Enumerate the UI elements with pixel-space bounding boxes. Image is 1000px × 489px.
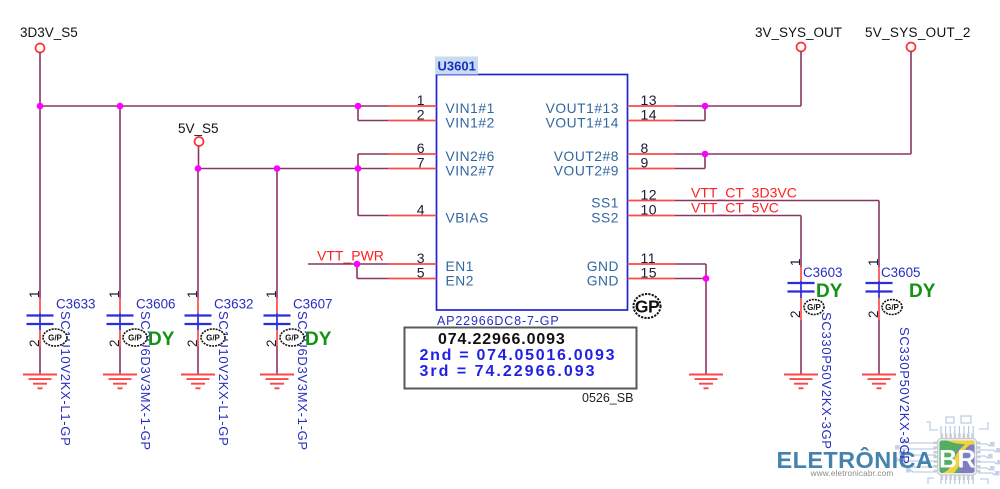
svg-text:0526_SB: 0526_SB	[582, 391, 633, 405]
wire bus 3D3V_S5 horizontal	[39, 105, 388, 107]
wire to pin2	[357, 106, 359, 121]
svg-text:SS1: SS1	[591, 196, 619, 211]
svg-text:12: 12	[641, 187, 658, 203]
wire 3D3V_S5 down	[39, 52, 41, 106]
svg-text:15: 15	[641, 265, 658, 281]
svg-text:VTT_CT_5VC: VTT_CT_5VC	[691, 200, 779, 216]
svg-text:7: 7	[417, 155, 425, 171]
op-amp U3601 body (load switch IC)	[437, 75, 628, 311]
junction VTT_PWR branch	[354, 261, 361, 268]
GP stamp logo at U3601	[634, 294, 661, 318]
junction C3607 tap	[274, 165, 281, 172]
svg-text:2: 2	[417, 107, 425, 123]
svg-text:GP: GP	[635, 297, 660, 317]
wire bus 5V_S5 horizontal	[198, 168, 388, 170]
wire VOUT1 to 3V_SYS_OUT	[675, 105, 801, 107]
svg-text:9: 9	[641, 155, 649, 171]
svg-text:C3607: C3607	[293, 297, 332, 312]
svg-text:SS2: SS2	[591, 211, 619, 226]
svg-text:G/P: G/P	[285, 333, 299, 342]
svg-text:2: 2	[866, 310, 881, 318]
junction 5V_S5/C3632	[195, 165, 202, 172]
svg-text:3V_SYS_OUT: 3V_SYS_OUT	[755, 25, 842, 40]
wire C3632 feed	[197, 169, 199, 298]
svg-text:EN2: EN2	[446, 274, 475, 289]
wire C3607 feed	[276, 169, 278, 299]
capacitor C3632	[185, 290, 254, 446]
svg-text:2: 2	[107, 339, 122, 347]
svg-text:VOUT2#9: VOUT2#9	[554, 164, 619, 179]
wire pin5 row	[357, 278, 388, 280]
svg-text:1: 1	[788, 258, 803, 266]
wire pin11 row	[675, 263, 706, 265]
svg-text:U3601: U3601	[438, 59, 476, 74]
svg-text:DY: DY	[148, 329, 175, 350]
svg-text:DY: DY	[909, 281, 936, 302]
ground under C3632	[181, 375, 215, 389]
wire to pin5	[356, 264, 358, 279]
svg-text:2nd = 074.05016.0093: 2nd = 074.05016.0093	[420, 347, 617, 364]
svg-text:GND: GND	[587, 259, 619, 274]
svg-text:EN1: EN1	[446, 259, 475, 274]
wire 5V_SYS_OUT_2 down	[910, 51, 912, 154]
wire to pin9	[704, 154, 706, 169]
svg-text:2: 2	[185, 339, 200, 347]
svg-text:VBIAS: VBIAS	[446, 211, 489, 226]
ground under C3633	[23, 375, 57, 389]
svg-text:2: 2	[264, 339, 279, 347]
svg-text:SC330P50V2KX-3GP: SC330P50V2KX-3GP	[819, 312, 834, 450]
svg-text:1: 1	[185, 290, 200, 298]
capacitor C3606	[107, 290, 176, 450]
svg-text:VOUT1#14: VOUT1#14	[546, 116, 619, 131]
wire pin14 row	[675, 120, 705, 122]
svg-text:G/P: G/P	[206, 333, 220, 342]
svg-text:G/P: G/P	[48, 333, 62, 342]
capacitor C3633	[27, 290, 96, 446]
pin 11 (GND)	[587, 250, 675, 274]
wire SS1 to C3605	[878, 201, 880, 268]
ground under U3601 GND pins	[689, 375, 723, 389]
pin 10 (SS2)	[591, 202, 675, 226]
svg-text:AP22966DC8-7-GP: AP22966DC8-7-GP	[437, 314, 560, 328]
svg-text:C3606: C3606	[136, 297, 175, 312]
wire VTT_PWR	[308, 263, 388, 265]
junction pin1/pin2 branch	[355, 103, 362, 110]
svg-text:C3633: C3633	[56, 297, 95, 312]
junction VOUT2 branch	[702, 151, 709, 158]
svg-text:VIN2#6: VIN2#6	[446, 149, 495, 164]
wire vertical pins 6-4	[357, 154, 359, 216]
pin 1 (VIN1#1)	[388, 92, 495, 116]
ground under C3607	[260, 375, 294, 389]
svg-text:VTT_CT_3D3VC: VTT_CT_3D3VC	[691, 185, 797, 201]
svg-text:G/P: G/P	[807, 303, 821, 312]
wire to pin14	[704, 106, 706, 121]
svg-text:1: 1	[264, 290, 279, 298]
svg-text:1: 1	[866, 258, 881, 266]
svg-text:10: 10	[641, 202, 658, 218]
wire pin2 row	[358, 120, 388, 122]
pin 7 (VIN2#7)	[388, 155, 495, 179]
svg-text:VOUT1#13: VOUT1#13	[546, 101, 619, 116]
GP stamp logo on C3633	[43, 329, 67, 346]
svg-text:C3603: C3603	[803, 265, 842, 280]
pin 12 (SS1)	[591, 187, 675, 211]
GP stamp logo on C3632	[201, 329, 225, 346]
svg-text:074.22966.0093: 074.22966.0093	[438, 331, 566, 348]
svg-text:4: 4	[417, 202, 425, 218]
wire SS2 net	[675, 215, 801, 217]
wire 3V_SYS_OUT down	[800, 51, 802, 106]
svg-text:2: 2	[788, 310, 803, 318]
pin 14 (VOUT1#14)	[546, 107, 675, 131]
wire pin6 row	[358, 153, 388, 155]
GP stamp logo on C3606	[123, 329, 147, 346]
svg-text:1: 1	[107, 290, 122, 298]
capacitor C3607	[264, 290, 333, 450]
pin 9 (VOUT2#9)	[554, 155, 675, 179]
svg-text:3D3V_S5: 3D3V_S5	[20, 25, 78, 40]
ground under C3606	[103, 375, 137, 389]
wire C3633 feed	[39, 106, 41, 298]
svg-text:GND: GND	[587, 274, 619, 289]
svg-text:14: 14	[641, 107, 658, 123]
svg-text:5V_SYS_OUT_2: 5V_SYS_OUT_2	[865, 25, 971, 40]
capacitor C3605	[866, 258, 921, 464]
svg-text:VOUT2#8: VOUT2#8	[554, 149, 619, 164]
svg-text:VIN1#2: VIN1#2	[446, 116, 495, 131]
junction VOUT1 branch	[702, 103, 709, 110]
svg-text:C3632: C3632	[214, 297, 253, 312]
power port 3V_SYS_OUT	[755, 25, 842, 52]
svg-text:www.eletronicabr.com: www.eletronicabr.com	[810, 469, 894, 478]
junction GND branch	[703, 275, 710, 282]
svg-text:2: 2	[27, 339, 42, 347]
svg-text:VIN1#1: VIN1#1	[446, 101, 495, 116]
wire GND down	[705, 279, 707, 375]
pin 6 (VIN2#6)	[388, 140, 495, 164]
pin 3 (EN1)	[388, 250, 474, 274]
ground under C3603	[784, 375, 818, 389]
GP stamp logo on C3607	[280, 329, 304, 346]
pin 4 (VBIAS)	[388, 202, 489, 226]
svg-text:G/P: G/P	[885, 303, 899, 312]
power port 5V_SYS_OUT_2	[865, 25, 971, 52]
capacitor C3603	[788, 258, 843, 449]
pin 5 (EN2)	[388, 265, 474, 289]
power port 3D3V_S5	[20, 25, 78, 53]
pin 8 (VOUT2#8)	[554, 140, 675, 164]
wire SS2 to C3603	[800, 216, 802, 268]
wire C3606 feed	[119, 106, 121, 298]
svg-text:SC330P50V2KX-3GP: SC330P50V2KX-3GP	[897, 327, 912, 465]
wire 5V_S5 down	[198, 146, 200, 169]
wire SS1 net	[675, 200, 879, 202]
svg-text:G/P: G/P	[128, 333, 142, 342]
svg-text:5: 5	[417, 265, 425, 281]
GP stamp logo on C3603	[804, 300, 824, 315]
wire pin15 row	[675, 278, 706, 280]
wire pin4 row	[358, 215, 388, 217]
svg-text:DY: DY	[305, 329, 332, 350]
power port 5V_S5	[178, 121, 219, 146]
svg-text:VTT_PWR: VTT_PWR	[317, 248, 384, 264]
watermark logo ELETRONICA BR	[777, 416, 1000, 484]
junction pin7 branch	[355, 165, 362, 172]
wire pin9 row	[675, 168, 705, 170]
ground under C3605	[862, 375, 896, 389]
junction C3606 tap	[117, 103, 124, 110]
svg-text:VIN2#7: VIN2#7	[446, 164, 495, 179]
pin 13 (VOUT1#13)	[546, 92, 675, 116]
svg-text:5V_S5: 5V_S5	[178, 121, 219, 136]
GP stamp logo on C3605	[882, 300, 902, 315]
U3601 refdes label	[435, 57, 478, 75]
svg-text:3rd = 74.22966.093: 3rd = 74.22966.093	[420, 363, 597, 380]
pin 2 (VIN1#2)	[388, 107, 495, 131]
svg-text:BR: BR	[939, 446, 976, 474]
value annotation box	[405, 328, 637, 389]
svg-text:C3605: C3605	[881, 265, 920, 280]
pin 15 (GND)	[587, 265, 675, 289]
svg-text:1: 1	[27, 290, 42, 298]
wire VOUT2 to 5V_SYS_OUT_2	[675, 153, 911, 155]
junction 3D3V_S5/C3633	[37, 103, 44, 110]
wire pin11 to pin15	[705, 264, 707, 279]
svg-text:DY: DY	[816, 281, 843, 302]
